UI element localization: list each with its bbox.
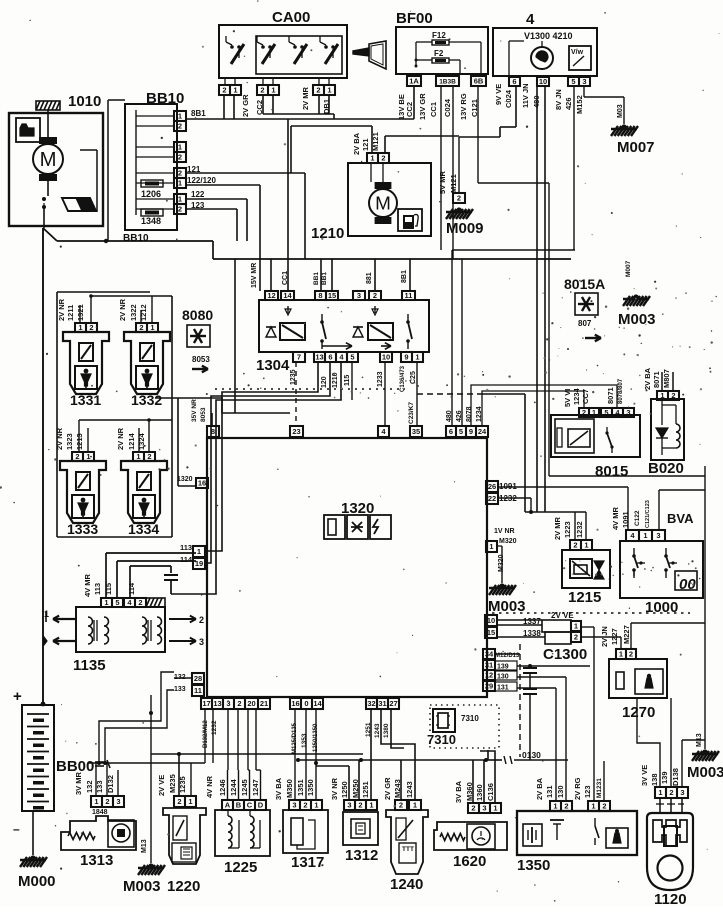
- svg-text:123: 123: [583, 785, 592, 798]
- svg-text:1: 1: [104, 598, 108, 607]
- svg-text:1: 1: [553, 802, 557, 811]
- svg-text:1120: 1120: [654, 891, 687, 907]
- svg-text:M121: M121: [449, 174, 458, 193]
- svg-text:2V NR: 2V NR: [116, 427, 125, 450]
- svg-text:1247: 1247: [251, 779, 260, 796]
- svg-text:3V NR: 3V NR: [330, 777, 339, 800]
- svg-text:C024: C024: [443, 98, 452, 117]
- svg-text:3: 3: [656, 531, 660, 540]
- svg-text:1225: 1225: [224, 859, 257, 876]
- svg-text:2V RG: 2V RG: [573, 777, 582, 800]
- svg-text:2V JN: 2V JN: [600, 626, 609, 647]
- svg-text:8B1: 8B1: [401, 270, 408, 283]
- svg-text:29: 29: [485, 682, 493, 691]
- svg-text:10: 10: [539, 77, 547, 86]
- svg-text:2V NR: 2V NR: [118, 298, 127, 321]
- svg-text:1220: 1220: [167, 878, 200, 895]
- svg-text:1215: 1215: [568, 589, 601, 606]
- svg-text:3V BA: 3V BA: [454, 780, 463, 803]
- svg-text:1351: 1351: [296, 779, 305, 796]
- svg-text:17: 17: [202, 699, 210, 708]
- svg-text:2: 2: [629, 650, 633, 659]
- svg-text:7: 7: [297, 353, 301, 362]
- svg-text:1: 1: [178, 112, 182, 121]
- svg-text:35: 35: [412, 427, 420, 436]
- svg-text:2V BA: 2V BA: [643, 367, 652, 390]
- svg-text:1320: 1320: [177, 476, 193, 483]
- svg-text:131: 131: [497, 685, 509, 692]
- svg-text:M003: M003: [123, 878, 161, 895]
- svg-text:M: M: [375, 193, 391, 214]
- svg-text:1: 1: [271, 86, 275, 95]
- svg-text:1322: 1322: [129, 304, 138, 321]
- svg-text:1: 1: [619, 650, 623, 659]
- svg-text:M121: M121: [371, 132, 380, 151]
- svg-text:1304: 1304: [256, 357, 290, 374]
- svg-text:1380: 1380: [383, 723, 390, 738]
- svg-text:7310: 7310: [461, 714, 479, 723]
- svg-text:122/120: 122/120: [187, 176, 216, 185]
- svg-text:16: 16: [291, 699, 299, 708]
- svg-text:2: 2: [89, 323, 93, 332]
- svg-text:M227: M227: [622, 625, 631, 644]
- svg-text:27: 27: [389, 699, 397, 708]
- svg-text:CC1: CC1: [429, 102, 438, 117]
- svg-text:138: 138: [650, 773, 659, 786]
- svg-text:1332: 1332: [131, 392, 162, 408]
- svg-text:1243: 1243: [405, 781, 414, 798]
- svg-text:1A: 1A: [409, 77, 419, 86]
- svg-text:13: 13: [315, 353, 323, 362]
- svg-text:F12: F12: [432, 31, 446, 40]
- svg-text:15: 15: [328, 291, 336, 300]
- svg-text:9: 9: [469, 427, 473, 436]
- svg-text:121: 121: [361, 138, 370, 151]
- svg-text:2: 2: [178, 122, 182, 131]
- svg-text:1313: 1313: [80, 852, 113, 869]
- svg-text:130: 130: [497, 674, 509, 681]
- svg-text:133: 133: [174, 686, 186, 693]
- svg-text:5V MR: 5V MR: [438, 170, 447, 194]
- svg-text:3: 3: [626, 408, 630, 417]
- svg-text:2: 2: [602, 802, 606, 811]
- svg-text:CC1: CC1: [282, 271, 289, 285]
- svg-text:BVA: BVA: [667, 511, 694, 526]
- svg-text:8B1: 8B1: [191, 109, 206, 118]
- svg-text:1: 1: [493, 804, 497, 813]
- svg-text:2V GR: 2V GR: [241, 94, 250, 117]
- svg-text:26: 26: [488, 482, 496, 491]
- svg-text:22: 22: [488, 494, 496, 503]
- svg-text:13V RG: 13V RG: [459, 93, 468, 120]
- svg-text:M007: M007: [617, 139, 655, 156]
- svg-text:A: A: [225, 801, 231, 810]
- svg-text:426: 426: [456, 410, 463, 422]
- svg-text:139: 139: [497, 664, 509, 671]
- svg-text:2: 2: [260, 86, 264, 95]
- svg-text:19: 19: [195, 559, 203, 568]
- svg-text:C024: C024: [504, 89, 513, 108]
- svg-text:1333: 1333: [67, 521, 98, 537]
- svg-text:130: 130: [556, 785, 565, 798]
- svg-text:8015: 8015: [595, 463, 628, 480]
- svg-text:1323: 1323: [65, 433, 74, 450]
- svg-text:11: 11: [405, 291, 413, 300]
- svg-text:M000: M000: [18, 873, 56, 890]
- svg-text:23: 23: [292, 427, 300, 436]
- svg-text:3: 3: [116, 797, 120, 806]
- svg-text:BB10: BB10: [123, 233, 149, 244]
- svg-text:2: 2: [222, 86, 226, 95]
- svg-text:1360: 1360: [475, 784, 484, 801]
- svg-text:5: 5: [604, 408, 608, 417]
- svg-text:120: 120: [321, 376, 328, 388]
- svg-text:2V MR: 2V MR: [553, 516, 562, 540]
- svg-text:1206: 1206: [141, 189, 161, 199]
- svg-text:4V NR: 4V NR: [205, 775, 214, 798]
- svg-text:M003: M003: [687, 764, 723, 781]
- svg-text:4: 4: [526, 11, 535, 28]
- svg-text:C: C: [247, 801, 253, 810]
- svg-text:32: 32: [367, 699, 375, 708]
- svg-text:2: 2: [178, 153, 182, 162]
- svg-text:1350: 1350: [306, 779, 315, 796]
- svg-text:M009: M009: [446, 220, 484, 237]
- svg-text:2: 2: [316, 86, 320, 95]
- svg-text:1: 1: [660, 391, 664, 400]
- svg-text:10: 10: [382, 353, 390, 362]
- svg-text:1243: 1243: [374, 723, 381, 738]
- svg-text:6B: 6B: [474, 77, 484, 86]
- svg-text:24: 24: [478, 427, 487, 436]
- svg-text:0130: 0130: [522, 750, 541, 760]
- svg-text:3: 3: [292, 801, 296, 810]
- svg-text:114: 114: [127, 582, 136, 595]
- svg-text:132: 132: [85, 780, 94, 793]
- svg-text:6: 6: [449, 427, 453, 436]
- svg-text:B020: B020: [648, 460, 684, 477]
- svg-text:1250: 1250: [340, 781, 349, 798]
- svg-text:12: 12: [267, 291, 275, 300]
- svg-text:1: 1: [658, 788, 662, 797]
- svg-text:2: 2: [471, 804, 475, 813]
- svg-text:BF00: BF00: [396, 10, 433, 27]
- svg-text:2: 2: [671, 391, 675, 400]
- svg-text:V1300 4210: V1300 4210: [524, 31, 573, 41]
- svg-text:28: 28: [194, 674, 202, 683]
- svg-text:5: 5: [459, 427, 463, 436]
- svg-text:2: 2: [237, 699, 241, 708]
- svg-text:11V JN: 11V JN: [521, 83, 530, 108]
- svg-text:TTT: TTT: [402, 846, 414, 853]
- svg-text:1331: 1331: [70, 392, 101, 408]
- svg-text:2: 2: [105, 797, 109, 806]
- svg-text:2: 2: [381, 154, 385, 163]
- svg-text:2: 2: [147, 452, 151, 461]
- svg-text:1: 1: [233, 86, 237, 95]
- svg-text:8071: 8071: [606, 387, 615, 404]
- svg-text:BB1: BB1: [321, 272, 328, 285]
- svg-text:1: 1: [574, 622, 578, 631]
- svg-text:B: B: [236, 801, 242, 810]
- svg-text:11: 11: [194, 686, 202, 695]
- svg-text:M007: M007: [625, 260, 632, 277]
- svg-text:C23/K7: C23/K7: [408, 402, 415, 424]
- svg-text:1010: 1010: [68, 93, 101, 110]
- svg-text:8015A: 8015A: [564, 276, 605, 292]
- svg-text:131: 131: [545, 785, 554, 798]
- svg-text:3: 3: [347, 801, 351, 810]
- svg-text:21: 21: [260, 699, 268, 708]
- svg-text:C122: C122: [634, 510, 641, 526]
- svg-text:2: 2: [177, 797, 181, 806]
- svg-text:1: 1: [178, 143, 182, 152]
- svg-text:1: 1: [197, 547, 201, 556]
- svg-text:114: 114: [180, 555, 193, 564]
- svg-text:34: 34: [485, 650, 494, 659]
- svg-text:1210: 1210: [311, 225, 344, 242]
- svg-text:1244: 1244: [229, 778, 238, 796]
- svg-text:1317: 1317: [291, 854, 324, 871]
- svg-text:1350: 1350: [517, 857, 550, 874]
- svg-text:C25: C25: [410, 371, 417, 384]
- svg-text:3V VE: 3V VE: [640, 765, 649, 786]
- svg-text:M: M: [40, 149, 57, 171]
- svg-text:122: 122: [191, 190, 205, 199]
- svg-text:2V VE: 2V VE: [157, 775, 166, 796]
- svg-text:6: 6: [328, 353, 332, 362]
- svg-text:2V BA: 2V BA: [352, 132, 361, 155]
- svg-text:2: 2: [178, 169, 182, 178]
- svg-text:1135: 1135: [73, 657, 106, 674]
- svg-text:2: 2: [138, 598, 142, 607]
- svg-text:M13: M13: [141, 839, 148, 853]
- svg-text:1240: 1240: [390, 876, 423, 893]
- svg-text:5: 5: [115, 598, 119, 607]
- svg-text:1: 1: [584, 541, 588, 550]
- svg-text:2: 2: [669, 788, 673, 797]
- svg-text:2V NR: 2V NR: [57, 298, 66, 321]
- svg-text:CA00: CA00: [272, 9, 310, 26]
- svg-text:8053: 8053: [200, 407, 207, 422]
- svg-text:–: –: [13, 822, 20, 836]
- svg-text:1234: 1234: [572, 387, 581, 405]
- svg-text:113: 113: [93, 583, 102, 595]
- svg-text:426: 426: [564, 97, 573, 110]
- svg-text:1: 1: [413, 801, 417, 810]
- svg-text:1: 1: [136, 452, 140, 461]
- svg-text:C136: C136: [486, 783, 495, 801]
- svg-text:1: 1: [327, 86, 331, 95]
- svg-text:C136/473: C136/473: [400, 365, 406, 392]
- svg-text:1: 1: [188, 797, 192, 806]
- svg-text:2V GR: 2V GR: [383, 777, 392, 800]
- svg-text:1848: 1848: [92, 809, 108, 816]
- svg-text:2V BA: 2V BA: [535, 777, 544, 800]
- svg-text:1227: 1227: [610, 628, 619, 645]
- svg-text:1620: 1620: [453, 853, 486, 870]
- svg-text:14: 14: [283, 291, 292, 300]
- svg-text:M235: M235: [168, 774, 177, 793]
- svg-text:M1231: M1231: [596, 778, 603, 798]
- svg-text:4V MR: 4V MR: [83, 573, 92, 597]
- svg-text:3: 3: [357, 291, 361, 300]
- svg-text:1: 1: [489, 542, 493, 551]
- svg-text:3: 3: [680, 788, 684, 797]
- svg-text:1: 1: [78, 323, 82, 332]
- svg-text:5: 5: [350, 353, 354, 362]
- svg-text:1: 1: [369, 801, 373, 810]
- svg-text:13: 13: [213, 699, 221, 708]
- svg-text:3V BA: 3V BA: [274, 777, 283, 800]
- svg-text:1: 1: [150, 323, 154, 332]
- svg-text:8078/807: 8078/807: [618, 378, 624, 404]
- svg-text:1: 1: [314, 801, 318, 810]
- svg-text:14: 14: [313, 699, 322, 708]
- svg-text:2: 2: [564, 802, 568, 811]
- svg-text:1223: 1223: [563, 521, 572, 538]
- svg-text:2: 2: [573, 541, 577, 550]
- svg-text:1348: 1348: [141, 216, 161, 226]
- svg-text:1: 1: [86, 452, 90, 461]
- svg-text:31: 31: [485, 661, 493, 670]
- svg-text:139: 139: [660, 771, 669, 784]
- svg-text:0: 0: [304, 699, 308, 708]
- svg-text:480: 480: [446, 410, 453, 422]
- svg-text:1: 1: [643, 531, 647, 540]
- svg-text:6: 6: [512, 77, 516, 86]
- svg-text:1: 1: [370, 154, 374, 163]
- svg-text:7310: 7310: [427, 732, 456, 747]
- svg-text:2: 2: [139, 323, 143, 332]
- svg-text:C1300: C1300: [543, 646, 587, 663]
- svg-text:2: 2: [178, 205, 182, 214]
- svg-text:1: 1: [415, 353, 419, 362]
- svg-text:1251: 1251: [361, 781, 370, 798]
- svg-text:2: 2: [75, 452, 79, 461]
- svg-text:5: 5: [571, 77, 575, 86]
- svg-text:2: 2: [303, 801, 307, 810]
- svg-text:1270: 1270: [622, 704, 655, 721]
- svg-text:9V VE: 9V VE: [494, 84, 503, 105]
- svg-text:1: 1: [178, 195, 182, 204]
- svg-text:8: 8: [211, 427, 215, 436]
- svg-text:1B3B: 1B3B: [439, 78, 456, 85]
- svg-text:8053: 8053: [192, 355, 210, 364]
- svg-text:3V MR: 3V MR: [74, 771, 83, 795]
- svg-text:D138: D138: [671, 768, 680, 786]
- svg-text:M003: M003: [618, 311, 656, 328]
- svg-text:15: 15: [487, 628, 495, 637]
- svg-text:881: 881: [366, 272, 373, 284]
- svg-text:1245: 1245: [240, 779, 249, 796]
- svg-text:B132/M12: B132/M12: [203, 720, 209, 748]
- svg-text:9: 9: [404, 353, 408, 362]
- svg-text:+: +: [13, 688, 22, 705]
- svg-text:8080: 8080: [182, 307, 213, 323]
- svg-text:M807: M807: [662, 369, 671, 388]
- svg-text:10: 10: [487, 616, 495, 625]
- svg-text:3: 3: [582, 77, 586, 86]
- svg-text:1V NR: 1V NR: [494, 528, 515, 535]
- svg-text:1: 1: [592, 408, 596, 417]
- svg-text:1: 1: [178, 179, 182, 188]
- svg-text:M320: M320: [499, 538, 517, 545]
- svg-text:1210: 1210: [332, 372, 339, 388]
- svg-text:1312: 1312: [345, 847, 378, 864]
- svg-text:F2: F2: [434, 49, 444, 58]
- svg-text:2: 2: [399, 801, 403, 810]
- svg-text:807: 807: [578, 319, 592, 328]
- svg-text:13V GR: 13V GR: [418, 93, 427, 120]
- svg-text:1232: 1232: [211, 720, 218, 735]
- svg-text:1233: 1233: [377, 371, 384, 387]
- svg-text:8V JN: 8V JN: [554, 89, 563, 110]
- svg-text:16: 16: [198, 479, 206, 488]
- svg-text:C121/C123: C121/C123: [645, 500, 651, 528]
- svg-text:1211: 1211: [66, 305, 75, 321]
- svg-text:1: 1: [94, 797, 98, 806]
- svg-text:4V MR: 4V MR: [611, 506, 620, 530]
- svg-text:1246: 1246: [218, 779, 227, 796]
- svg-text:2: 2: [199, 615, 204, 625]
- svg-text:12: 12: [485, 671, 493, 680]
- svg-text:1214: 1214: [127, 432, 136, 450]
- svg-text:8: 8: [318, 291, 322, 300]
- svg-text:15V MR: 15V MR: [251, 263, 258, 288]
- svg-text:V/w: V/w: [571, 49, 584, 56]
- svg-text:CC2: CC2: [405, 102, 414, 117]
- svg-text:2: 2: [457, 194, 461, 203]
- svg-text:M152: M152: [575, 95, 584, 114]
- svg-text:2: 2: [373, 291, 377, 300]
- svg-text:1232: 1232: [575, 521, 584, 538]
- svg-text:2V MR: 2V MR: [301, 86, 310, 110]
- svg-text:115: 115: [344, 375, 351, 386]
- svg-text:3: 3: [199, 637, 204, 647]
- svg-text:2: 2: [358, 801, 362, 810]
- svg-text:31: 31: [378, 699, 386, 708]
- svg-text:2: 2: [574, 633, 578, 642]
- svg-text:1353: 1353: [301, 733, 308, 748]
- svg-text:35V NR: 35V NR: [191, 399, 198, 422]
- svg-text:20: 20: [247, 699, 255, 708]
- svg-text:113: 113: [180, 543, 192, 552]
- svg-text:8078: 8078: [466, 406, 473, 422]
- svg-text:D: D: [258, 801, 264, 810]
- svg-text:2: 2: [582, 408, 586, 417]
- svg-text:M03: M03: [617, 104, 624, 118]
- svg-text:1334: 1334: [128, 521, 159, 537]
- svg-text:8071: 8071: [652, 371, 661, 388]
- svg-text:M350: M350: [285, 779, 294, 798]
- svg-text:BB1: BB1: [313, 272, 320, 285]
- svg-text:1: 1: [591, 802, 595, 811]
- svg-text:3: 3: [482, 804, 486, 813]
